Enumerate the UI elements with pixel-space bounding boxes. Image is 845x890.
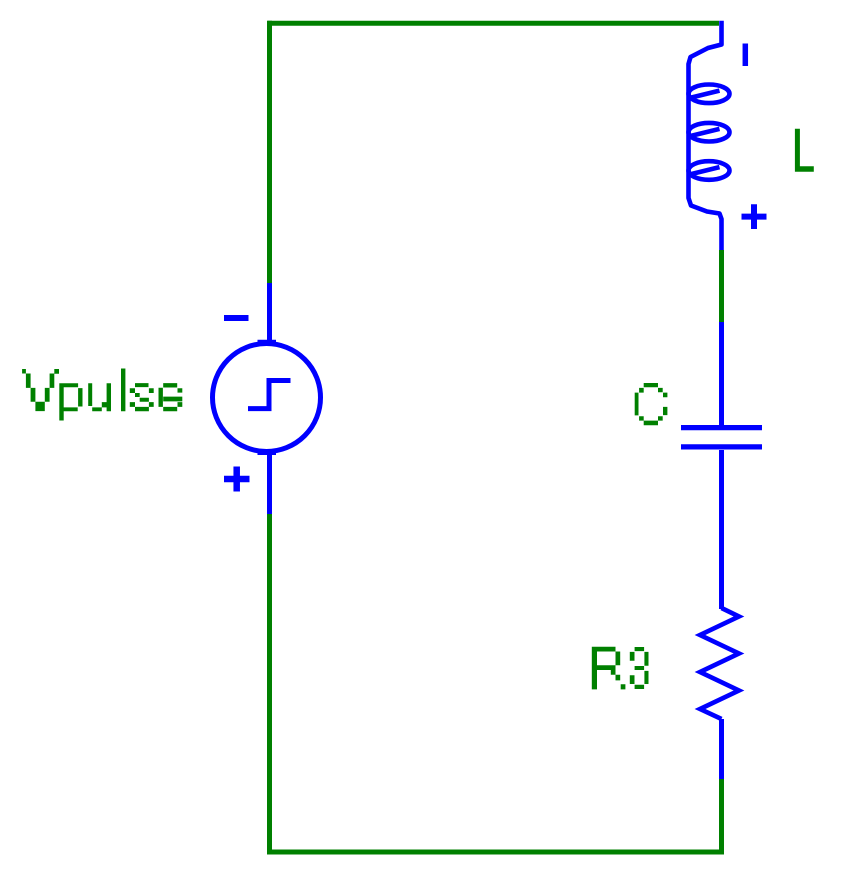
wire right between L and C (719, 250, 724, 322)
voltage source V1 top pin tick (258, 340, 277, 345)
wire left upper (Vpulse minus terminal net) (267, 21, 272, 283)
voltage source U Vpulse circle (213, 344, 321, 452)
wire bottom (node between Vpulse plus and R3) (267, 850, 724, 855)
label L (795, 129, 814, 172)
voltage source V1 bottom pin tick (258, 451, 277, 456)
capacitor C top plate (681, 425, 762, 430)
inductor L body wire (689, 21, 722, 250)
minus sign of inductor (743, 44, 749, 67)
inductor L loop 3 crossing wire (691, 167, 720, 174)
label R3 (592, 647, 649, 690)
inductor L loop 3 (689, 161, 730, 180)
minus sign of Vpulse (224, 315, 249, 321)
capacitor C bottom plate (681, 444, 762, 449)
capacitor C bottom lead (719, 450, 724, 609)
label Vpulse (22, 369, 182, 421)
inductor L loop 2 (689, 123, 730, 142)
label C (635, 383, 668, 425)
resistor R3 bottom lead (719, 719, 724, 779)
wire right between R3 and bottom (719, 779, 724, 855)
inductor L loop 1 crossing wire (691, 91, 720, 98)
Vpulse step waveform symbol (248, 381, 291, 409)
voltage source V1 top pin stub (267, 283, 272, 344)
plus sign of inductor (742, 204, 767, 229)
wire top (node between Vpulse minus and inductor) (268, 21, 720, 26)
voltage source V1 bottom pin stub (267, 451, 272, 514)
resistor R3 zigzag (700, 608, 739, 719)
inductor L loop 2 crossing wire (691, 129, 720, 136)
capacitor C top lead (719, 322, 724, 425)
plus sign of Vpulse (224, 467, 250, 492)
inductor L loop 1 (689, 85, 730, 104)
wire left lower (Vpulse plus terminal net) (267, 514, 272, 855)
